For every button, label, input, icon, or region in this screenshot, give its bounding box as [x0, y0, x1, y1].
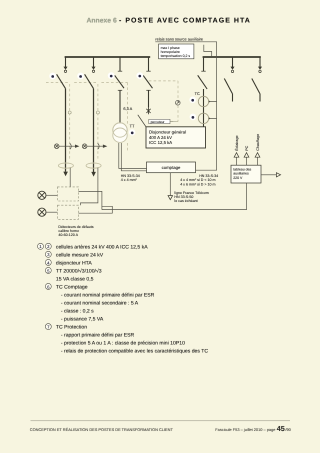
fault detector box 1 [57, 187, 78, 201]
svg-text:- rapport primaire défini par: - rapport primaire défini par ESR [61, 333, 135, 339]
svg-text:le cas échéant: le cas échéant [174, 199, 197, 203]
svg-text:relais sans source auxiliaire: relais sans source auxiliaire [155, 37, 203, 42]
svg-text:6,3 A: 6,3 A [123, 106, 132, 111]
linkage circles on cell boundaries [68, 111, 71, 114]
plug triangle PC [244, 153, 249, 158]
busbar left [65, 56, 151, 58]
france telecom stub [169, 173, 171, 196]
cable end arrow 1 [63, 172, 68, 177]
aux board feeds [237, 157, 258, 165]
svg-text:4 x 6 mm² si D > 10 m: 4 x 6 mm² si D > 10 m [180, 182, 215, 186]
svg-text:TT: TT [130, 124, 135, 129]
svg-text:220 V: 220 V [233, 176, 243, 180]
disjoncteur general box [146, 127, 206, 148]
aux switch 1 [224, 57, 232, 102]
node 3 badge [108, 72, 115, 79]
plug triangle eclairage [234, 153, 239, 158]
svg-text:Éclairage: Éclairage [234, 135, 239, 150]
aux bottom wire to LV run [79, 183, 247, 210]
switch cell 3 (mesure) [115, 57, 124, 125]
svg-text:disjoncteur HTA: disjoncteur HTA [56, 260, 92, 266]
relais leader wire to CT secondaries [155, 42, 216, 170]
percuteur callout [138, 115, 146, 127]
aux right outlet wire [261, 174, 276, 176]
svg-text:Annexe 6: Annexe 6 [87, 18, 117, 25]
switch cell 4 (disjoncteur) [143, 57, 152, 108]
fault detector box 2 [57, 205, 78, 219]
aux switch 2 [252, 57, 260, 102]
svg-text:temporisation 0,2 s: temporisation 0,2 s [161, 54, 191, 58]
percuteur star [146, 108, 150, 115]
busbar right [203, 56, 261, 58]
cable end arrow 2 [91, 172, 96, 177]
feeder 1 top arrow + contact [64, 67, 68, 70]
voltage transformer TT [113, 123, 127, 137]
svg-text:- classe : 0,2 s: - classe : 0,2 s [61, 309, 94, 315]
node 5 badge [129, 129, 135, 135]
TC protection ring [198, 113, 208, 123]
list row 6 TC protection [45, 324, 51, 330]
svg-text:Fascicule F53 – juillet 2010 –: Fascicule F53 – juillet 2010 – page [215, 427, 276, 432]
list row 3 [45, 259, 51, 265]
comptage box [147, 162, 196, 173]
node 2 badge [77, 73, 84, 80]
list row 5 TC comptage [45, 283, 51, 289]
svg-text:4 x 4 mm²: 4 x 4 mm² [121, 178, 138, 182]
svg-text:40-60-120 A: 40-60-120 A [58, 233, 78, 237]
svg-text:- courant nominal primaire déf: - courant nominal primaire défini par ES… [61, 293, 155, 299]
lamp 2 [38, 208, 46, 216]
svg-text:15 VA classe 0,5: 15 VA classe 0,5 [56, 276, 94, 282]
node 6 badge [189, 97, 196, 104]
relais box [159, 44, 194, 59]
svg-text:PC: PC [245, 145, 249, 150]
svg-text:cellule mesure 24 kV: cellule mesure 24 kV [56, 252, 104, 258]
svg-text:- puissance 7,5 VA: - puissance 7,5 VA [61, 317, 104, 323]
node 4 badge [136, 72, 143, 79]
svg-text:- courant nominal secondaire :: - courant nominal secondaire : 5 A [61, 301, 139, 307]
node 1 badge [49, 73, 56, 80]
svg-text:Disjoncteur général: Disjoncteur général [149, 130, 186, 135]
svg-text:400 A 24 kV: 400 A 24 kV [149, 135, 172, 140]
svg-text:TC Protection: TC Protection [56, 325, 87, 331]
plug triangle chauffage [255, 153, 260, 158]
TT secondary pair to comptage [119, 143, 147, 171]
cell 1 dashed box [46, 83, 70, 161]
svg-text:- POSTE AVEC COMPTAGE HTA: - POSTE AVEC COMPTAGE HTA [119, 18, 251, 25]
earth switch 2 [82, 143, 103, 149]
lamp 1 [38, 191, 46, 199]
switch feeder 1 [57, 57, 66, 172]
svg-text:auxiliaires: auxiliaires [233, 172, 249, 176]
svg-text:TC: TC [195, 91, 200, 96]
svg-text:ICC 12,5 kA: ICC 12,5 kA [149, 140, 172, 145]
trip linkage circle on cell4 edge [176, 100, 181, 105]
svg-text:/90: /90 [285, 427, 291, 432]
svg-text:45: 45 [277, 424, 285, 433]
svg-text:- protection 5 A ou 1 A : clas: - protection 5 A ou 1 A : classe de préc… [61, 341, 185, 347]
TC comptage ring [198, 96, 208, 106]
sensor return wires [79, 206, 113, 213]
svg-text:- relais de protection compati: - relais de protection compatible avec l… [61, 349, 208, 355]
cell 3 dashed box [101, 83, 127, 152]
svg-text:comptage: comptage [162, 165, 181, 170]
cell 4 dashed box [149, 81, 178, 122]
earth switch 1 [54, 143, 75, 149]
node 7 badge [190, 114, 197, 121]
cable sensor ring 2 [86, 163, 101, 168]
svg-text:TT 20000/√3/100/√3: TT 20000/√3/100/√3 [56, 267, 102, 274]
feeder 2 top arrow + contact [92, 67, 96, 70]
svg-text:CONCEPTION ET RÉALISATION DES: CONCEPTION ET RÉALISATION DES POSTES DE … [30, 427, 174, 432]
svg-text:percuteur: percuteur [151, 120, 166, 124]
list row 4 [45, 267, 51, 273]
list row 1 [38, 243, 44, 249]
breaker drop switch [198, 57, 207, 127]
svg-text:Chauffage: Chauffage [256, 134, 260, 151]
relay trip wire jog [204, 45, 212, 57]
CT secondary taps [209, 101, 211, 103]
cell 2 dashed box [74, 83, 98, 161]
list row 2 [45, 251, 51, 257]
footer rule [31, 420, 291, 422]
switch feeder 2 [85, 57, 94, 172]
svg-text:TC Comptage: TC Comptage [56, 284, 88, 290]
tableau des auxiliaires box [231, 165, 261, 183]
svg-text:cellules artères 24 kV 400 A I: cellules artères 24 kV 400 A ICC 12,5 kA [56, 244, 148, 250]
cable sensor ring 1 [58, 163, 73, 168]
